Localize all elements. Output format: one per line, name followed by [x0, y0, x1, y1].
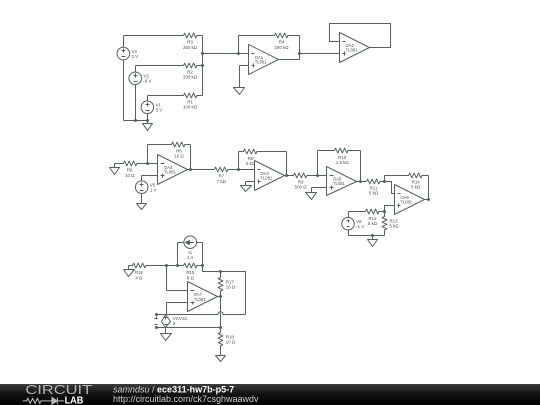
- svg-text:TL081: TL081: [400, 200, 413, 205]
- svg-text:5 kΩ: 5 kΩ: [246, 161, 256, 166]
- svg-text:TL081: TL081: [260, 175, 273, 180]
- svg-text:TL081: TL081: [346, 48, 359, 53]
- svg-text:250 kΩ: 250 kΩ: [183, 45, 198, 50]
- svg-text:100 kΩ: 100 kΩ: [183, 105, 198, 110]
- svg-text:7 kΩ: 7 kΩ: [217, 179, 227, 184]
- svg-text:LAB: LAB: [65, 396, 84, 405]
- svg-text:500 Ω: 500 Ω: [295, 185, 308, 190]
- svg-text:5 kΩ: 5 kΩ: [369, 191, 379, 196]
- svg-text:200 kΩ: 200 kΩ: [274, 45, 289, 50]
- svg-text:16 Ω: 16 Ω: [174, 154, 184, 159]
- svg-text:1 V: 1 V: [150, 187, 157, 192]
- svg-text:1 A: 1 A: [187, 255, 193, 260]
- svg-text:1.5 kΩ: 1.5 kΩ: [336, 160, 350, 165]
- svg-text:TL081: TL081: [164, 170, 177, 175]
- svg-text:-8 V: -8 V: [143, 79, 151, 84]
- svg-text:TL081: TL081: [333, 181, 346, 186]
- svg-text:200 kΩ: 200 kΩ: [183, 75, 198, 80]
- svg-text:4 Ω: 4 Ω: [135, 275, 143, 280]
- svg-text:5 kΩ: 5 kΩ: [368, 221, 378, 226]
- svg-text:10 Ω: 10 Ω: [125, 173, 135, 178]
- svg-text:-1 V: -1 V: [356, 224, 364, 229]
- svg-text:TL081: TL081: [255, 60, 268, 65]
- svg-text:3 V: 3 V: [132, 54, 139, 59]
- svg-text:8 Ω: 8 Ω: [187, 275, 195, 280]
- svg-text:http://circuitlab.com/ck7csghw: http://circuitlab.com/ck7csghwaawdv: [113, 394, 259, 404]
- svg-text:TL081: TL081: [194, 297, 207, 302]
- svg-text:samndsu / ece311-hw7b-p5-7: samndsu / ece311-hw7b-p5-7: [113, 384, 234, 394]
- svg-text:10 Ω: 10 Ω: [226, 284, 236, 289]
- svg-text:10 Ω: 10 Ω: [226, 340, 236, 345]
- svg-text:5 kΩ: 5 kΩ: [390, 224, 400, 229]
- svg-text:5 V: 5 V: [156, 108, 163, 113]
- svg-text:5 kΩ: 5 kΩ: [411, 185, 421, 190]
